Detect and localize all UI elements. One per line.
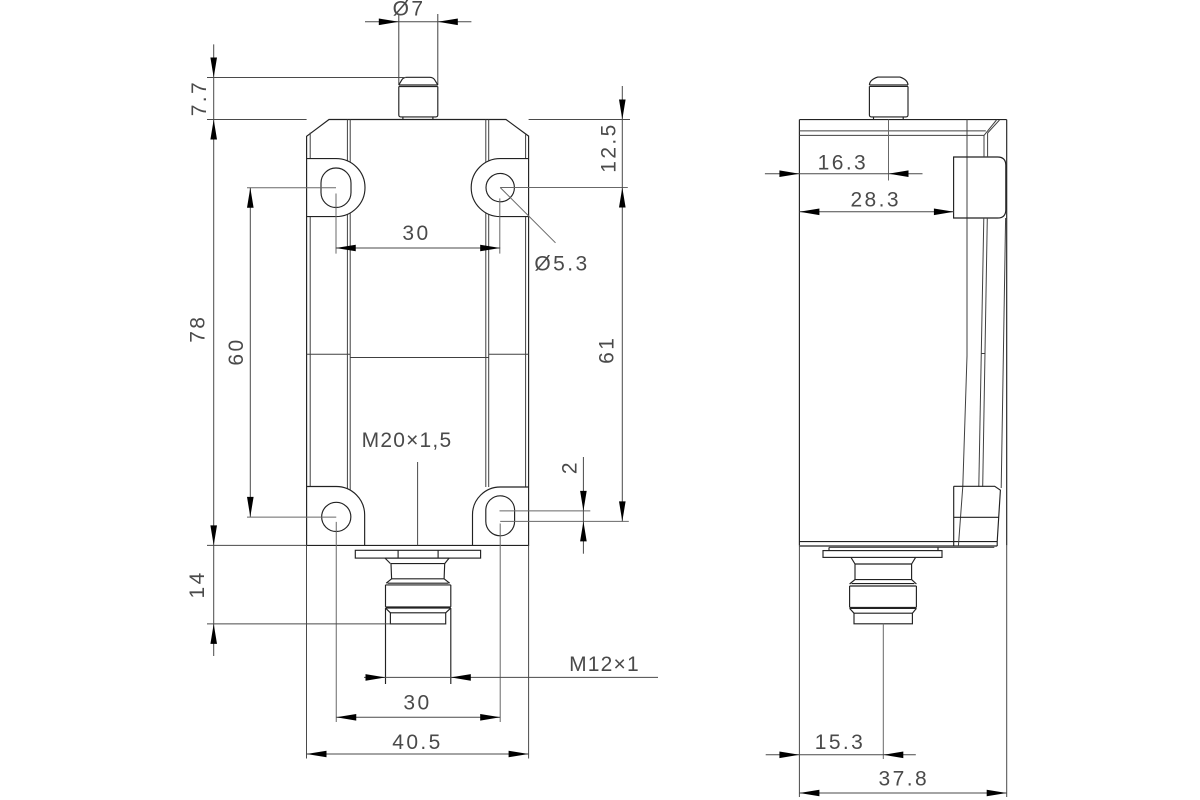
label M20x1,5 leader [417,462,419,545]
side plunger centerline [888,120,890,181]
front view body outline [307,120,529,546]
front connector groove [386,608,451,613]
svg-text:M20×1,5: M20×1,5 [362,429,453,452]
leader line dia 5.3 [500,188,555,243]
dimension 37.8 line [798,545,800,797]
dimension M12 line [364,676,658,678]
centerline bottom-left hole [247,516,336,518]
dimension 30 bottom line [336,716,500,718]
dimension 15.3 line [766,754,916,756]
svg-text:60: 60 [225,337,248,365]
front top-left mounting boss [307,159,365,217]
front body inner offset line left [309,133,311,159]
dimension 28.3 line [799,211,954,213]
side cable gland washer [829,546,994,548]
svg-text:78: 78 [187,315,210,343]
svg-text:Ø7: Ø7 [393,0,426,20]
front M12 thread cylinder [385,608,387,684]
dimension 2 line [582,457,584,554]
svg-text:30: 30 [403,692,431,715]
centerline top-right hole [500,187,628,189]
side plunger [869,77,908,85]
side body top inner lines [799,130,985,132]
side body front-face contour [958,120,967,546]
side connector centerline [882,624,884,759]
svg-text:12.5: 12.5 [598,122,621,172]
side body right inner contour [1001,218,1005,488]
front bottom-left hole circle [322,502,351,531]
front bottom-right mounting boss [473,487,529,545]
side body top-right chamfer [984,120,997,135]
front body parting line [307,353,351,355]
svg-text:37.8: 37.8 [879,768,929,791]
front bottom-right slotted hole [486,496,515,536]
dimension dia7 line [365,21,471,23]
svg-text:28.3: 28.3 [850,188,900,211]
side connector neck [851,557,916,564]
side bottom boss [954,486,1001,546]
svg-text:61: 61 [595,336,618,364]
dimension 16.3 line [765,173,923,175]
svg-text:2: 2 [558,460,581,474]
front body inner contour pair right [485,120,487,163]
svg-text:40.5: 40.5 [392,731,442,754]
front plunger [398,14,400,85]
side view body outline [799,119,1006,121]
svg-text:15.3: 15.3 [815,731,865,754]
centerline top-left hole [247,187,336,189]
front connector body [386,583,451,607]
svg-text:Ø5.3: Ø5.3 [534,253,589,276]
dimension 60 line [249,188,251,517]
centerline bottom-right hole [500,510,591,512]
svg-text:30: 30 [402,222,430,245]
front top-right mounting boss [471,159,528,217]
front top-left slotted hole [321,168,351,208]
dimension 12.5 / 61 line [621,86,623,521]
svg-text:16.3: 16.3 [818,152,868,175]
front body inner offset line right [525,133,527,158]
svg-text:14: 14 [186,570,209,598]
side connector body [850,584,917,608]
front bottom-left mounting boss [307,487,365,546]
front connector neck [385,558,449,564]
svg-text:M12×1: M12×1 [569,653,640,676]
side connector tip [850,608,917,613]
side body edge pair below ear [983,135,985,157]
dimension 7.7 / 78 / 14 line [213,44,215,656]
front body inner contour pair left [346,120,348,161]
dimension 30 top line [336,247,500,249]
side top boss (mounting ear) [954,157,1006,218]
front top-right hole circle [486,173,514,201]
svg-text:7.7: 7.7 [188,80,211,116]
dimension 40.5 line [306,545,308,758]
front cable gland washer [355,550,480,558]
